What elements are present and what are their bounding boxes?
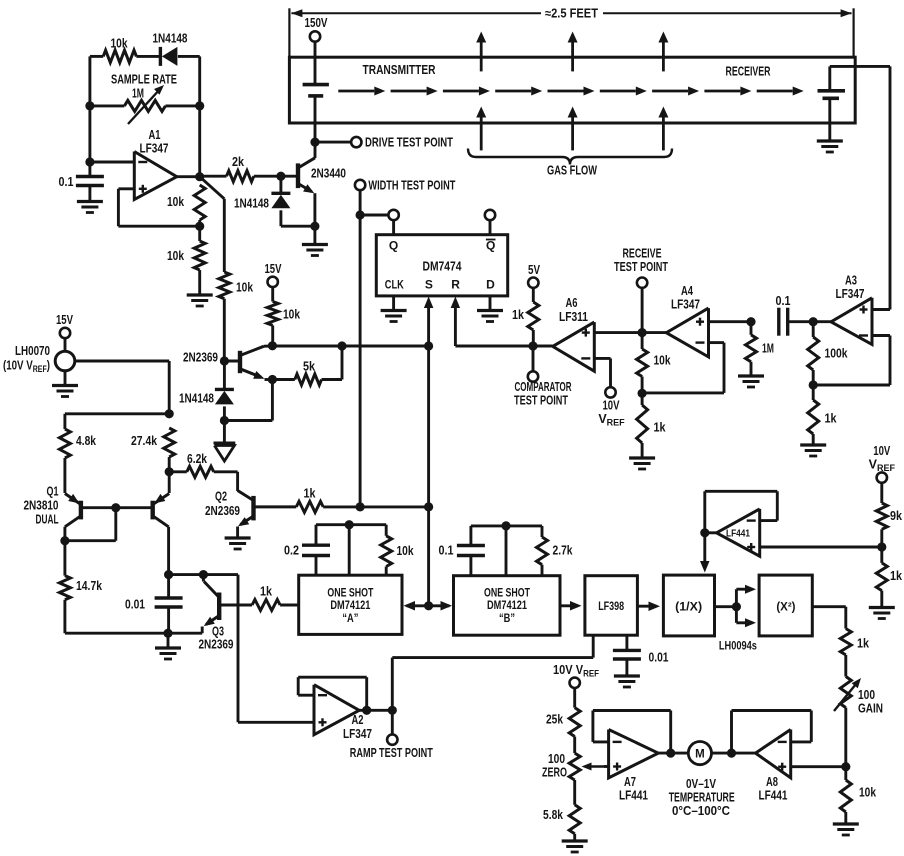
wire: receiver transducer bottom lead [828, 98, 831, 139]
node: 2N2369 emitter node [268, 375, 277, 384]
wire: width node to Q terminal [360, 214, 388, 217]
resistor 10k (A4 divider) [637, 349, 648, 377]
wire: A4 output to receive line [642, 331, 666, 334]
wire: cap to A3 node [788, 320, 814, 323]
op-amp U5 LF441 (reference buffer) [717, 509, 760, 556]
node: 5k tap junction [337, 341, 346, 350]
label: 5.8k [543, 808, 563, 822]
svg-text:Q3: Q3 [212, 625, 224, 639]
wire: A8 + input [791, 765, 846, 768]
sample-hold U4 LF398 [585, 576, 638, 636]
svg-text:1k: 1k [304, 487, 316, 501]
wire: west branch down [63, 414, 66, 429]
ground: ramp capacitor [155, 648, 181, 659]
label: 9k [890, 509, 902, 523]
capacitor 0.1 (coupling) [779, 308, 788, 336]
label: 10k (base feed) [236, 281, 253, 295]
wire: A2 output [359, 709, 392, 712]
node: bottom rail / 0.01 junction [163, 629, 172, 638]
wire: A4 - feedback [642, 343, 724, 393]
wire: S line vertical down [427, 346, 430, 606]
svg-text:2N2369: 2N2369 [205, 504, 240, 518]
diode 1N4148 (2N3440 base clamp) [271, 176, 290, 226]
svg-text:LH0094s: LH0094s [719, 639, 757, 653]
svg-text:M: M [695, 749, 705, 761]
wire: A1 output diagonal to 10k drop [200, 177, 225, 272]
node: S line mid junction [424, 502, 433, 511]
label: 1M [132, 87, 144, 101]
duct box (transmitter/receiver pipe) [289, 57, 855, 123]
svg-text:9k: 9k [890, 509, 902, 523]
node: A4 divider junction [638, 389, 647, 398]
svg-text:TEST POINT: TEST POINT [514, 394, 568, 408]
svg-text:“A”: “A” [342, 613, 358, 625]
ground: A8 10k [833, 824, 859, 835]
label: 2.7k [553, 544, 573, 558]
transducer: receiver element [818, 91, 846, 99]
wire: 1k to comparator node [532, 330, 535, 346]
ground: A3 gain [800, 445, 826, 456]
transistor Q3 2N2369 (ramp reset) [203, 575, 252, 627]
wire: emitter join [265, 378, 273, 381]
svg-text:A7: A7 [624, 775, 636, 789]
node: A1 divider midpoint [195, 222, 204, 231]
svg-text:A4: A4 [681, 284, 693, 298]
wire: 5V to 1k [532, 288, 535, 302]
svg-text:10k: 10k [236, 281, 253, 295]
terminal: RECEIVE TEST POINT [637, 278, 647, 288]
label: A7 [624, 775, 636, 789]
node: A2 output junction [388, 706, 397, 715]
wire: one-shot B timing top [471, 524, 542, 527]
wire: A3 node to A3 output [813, 320, 831, 323]
resistor 2k (A1 output to 2N3440 base) [200, 171, 281, 182]
label: 1M (load) [762, 342, 774, 356]
node: A6/A4 junction [638, 328, 647, 337]
svg-text:27.4k: 27.4k [131, 434, 157, 448]
node: ramp node (0.01 top) [164, 570, 173, 579]
wire: LF441 + input to divider [760, 546, 882, 549]
wire: receive line down [641, 288, 644, 349]
wire: 1k to ground [812, 434, 815, 444]
svg-text:“B”: “B” [499, 613, 515, 625]
node: 6.2k junction [165, 467, 174, 476]
wire: 10k to divider node [641, 377, 644, 406]
svg-text:1N4148: 1N4148 [234, 197, 269, 211]
wire: one-shot A timing top [316, 523, 386, 526]
wire: 5k tap drop [341, 346, 344, 380]
wire: hold cap to ground [625, 659, 628, 675]
wire: width line vertical [359, 190, 362, 507]
wire: LF441 feedback loop [705, 491, 778, 533]
svg-text:100k: 100k [825, 347, 848, 361]
label: SAMPLE RATE [111, 73, 177, 87]
node: A1 output [195, 172, 204, 181]
wire: 1M to ground [750, 362, 753, 375]
gas flow arrows (three columns through duct) [476, 32, 668, 151]
label: (1/X) [675, 602, 702, 614]
svg-text:Q1: Q1 [47, 485, 59, 499]
svg-text:≈2.5 FEET: ≈2.5 FEET [545, 7, 598, 21]
label: 10k (A8 input) [859, 786, 876, 800]
potentiometer 100 GAIN [834, 677, 861, 712]
label: DUAL [36, 513, 59, 527]
node: 2N3440 emitter node [310, 222, 319, 231]
label: LF347 (A1) [140, 142, 169, 156]
svg-text:10V: 10V [873, 444, 890, 458]
resistor 2.7k (one-shot B timing) [537, 526, 548, 576]
wire: A2 output up to sample line [392, 658, 593, 711]
label: LF441 (A8) [759, 789, 788, 803]
label: 1k (pullup) [512, 308, 524, 322]
wire: zero pot to 5.8k [573, 780, 576, 805]
svg-text:A3: A3 [845, 274, 857, 288]
svg-text:R: R [451, 278, 460, 292]
ground: A1 divider [187, 295, 213, 306]
svg-text:LF347: LF347 [343, 727, 372, 741]
svg-text:1M: 1M [132, 87, 144, 101]
svg-text:5k: 5k [303, 360, 315, 374]
wire: A6 - input to 10V VREF [594, 358, 610, 387]
svg-text:1k: 1k [654, 421, 666, 435]
label: GAIN [858, 702, 883, 716]
op-amp A1 LF347 [134, 152, 177, 200]
label: VREF (divider) [869, 458, 896, 474]
svg-text:ZERO: ZERO [542, 766, 567, 780]
terminal: DM7474 Q output [388, 210, 398, 220]
svg-text:LF441: LF441 [759, 789, 788, 803]
wire: 27.4k to 6.2k node [168, 457, 171, 472]
flip-flop U1 DM7474 [376, 235, 507, 296]
label: 10V (divider) [873, 444, 890, 458]
svg-text:GAIN: GAIN [858, 702, 883, 716]
svg-text:LF441: LF441 [619, 789, 648, 803]
svg-text:2N3810: 2N3810 [24, 499, 59, 513]
label: 0C-100C [672, 804, 730, 818]
terminal: 150V supply [305, 16, 329, 42]
resistor 10k (2N2369 collector) [267, 302, 278, 326]
label: 2N2369 (Q3) [199, 638, 234, 652]
svg-text:RECEIVER: RECEIVER [726, 65, 771, 79]
svg-text:Q: Q [486, 239, 495, 253]
node: A2 output feedback tap [362, 706, 371, 715]
svg-text:100: 100 [548, 752, 565, 766]
terminal: 10V VREF (A6) [605, 387, 615, 397]
svg-text:0V–1V: 0V–1V [686, 777, 717, 791]
ground: A4 divider [629, 458, 655, 469]
wire: 6.2k node to Q1 right emitter [168, 472, 171, 493]
wire: A7 feedback loop [593, 711, 671, 754]
svg-text:DRIVE TEST POINT: DRIVE TEST POINT [365, 136, 453, 150]
node: one-shot A timing junction [345, 520, 354, 529]
svg-text:0.1: 0.1 [439, 544, 454, 558]
potentiometer 1M (sample rate) [90, 85, 200, 124]
node: drive node [310, 138, 319, 147]
terminal: DM7474 Qbar output [485, 210, 495, 220]
wire: 10k down to 2N2369 base node [223, 299, 226, 361]
svg-text:LF347: LF347 [836, 287, 865, 301]
svg-text:GAS FLOW: GAS FLOW [547, 164, 597, 178]
wire: one-shot B to LF398 arrow [560, 601, 582, 611]
node: trigger junction [424, 601, 433, 610]
wire: VREF to 25k [573, 688, 576, 708]
node: 1M junction [746, 317, 755, 326]
wire: comparator node to A6 output [533, 345, 553, 348]
one-shot U2 DM74121 A [299, 575, 402, 634]
node: width/Q junction [356, 210, 365, 219]
label: 2N3440 [311, 167, 346, 181]
svg-text:25k: 25k [546, 713, 563, 727]
label: 6.2k [187, 452, 207, 466]
label: 1N4148 (discharge) [179, 392, 214, 406]
capacitor 0.1 (A1 timing) [76, 177, 104, 186]
resistor 10k (A1 top feedback) [103, 50, 136, 62]
label: 2N2369 (Q2) [205, 504, 240, 518]
label: Q1 [47, 485, 59, 499]
potentiometer 100 ZERO [569, 753, 604, 780]
svg-text:A8: A8 [766, 775, 778, 789]
label: DRIVE TEST POINT [365, 136, 453, 150]
ground: zero chain [562, 841, 588, 852]
label: (X2) [776, 602, 795, 614]
svg-text:2.7k: 2.7k [553, 544, 573, 558]
wire: Q1 base tie [81, 506, 153, 509]
wire: LF398 to 1/X arrow [637, 602, 660, 612]
svg-text:14.7k: 14.7k [76, 579, 102, 593]
transistor 2N2369 (width trigger) [224, 346, 264, 379]
label: (10V VREF) [3, 359, 50, 375]
wire: A1 + input loop [118, 189, 199, 226]
wire: A3 - feedback [813, 336, 890, 386]
wire: R to comparator output [455, 345, 533, 348]
label: 1k (gain chain) [857, 637, 869, 651]
svg-text:0.2: 0.2 [284, 544, 299, 558]
label: 0.1 (coupling) [776, 294, 791, 308]
wire: 1k to ground [880, 591, 883, 607]
wire: A3 + input from receiver [872, 308, 890, 311]
label: 0.1 [59, 175, 74, 189]
label: 1N4148 (clamp) [234, 197, 269, 211]
resistor 5k (emitter to S tap) [272, 374, 342, 385]
svg-text:LF311: LF311 [559, 310, 588, 324]
function block (1/X) LH0094 [663, 575, 714, 636]
label: 14.7k [76, 579, 102, 593]
label: 10k (collector) [283, 308, 300, 322]
wire: 15V to 10k [271, 287, 274, 301]
label: DM7474 [423, 259, 463, 274]
label: A1 [149, 128, 161, 142]
wire: 150V to transmitter transducer [314, 42, 317, 85]
label: Q3 [212, 625, 224, 639]
pin label: Qbar [486, 239, 496, 253]
wire: B timing junction into box [505, 526, 508, 576]
label: LH0070 [15, 344, 50, 358]
transistor Q1 2N3810 dual PNP - right half [153, 494, 170, 527]
ground: LH0070 [52, 386, 78, 397]
node: 1/X output junction [732, 602, 741, 611]
wire: LF398 hold cap pin [625, 635, 628, 650]
wire: Q1 left collector down [63, 527, 66, 576]
wire: rail junction to ground [167, 633, 170, 647]
capacitor 0.1 (one-shot B timing) [457, 526, 485, 576]
svg-text:DM74121: DM74121 [330, 600, 370, 612]
node: 1M right junction [195, 101, 204, 110]
meter M (0V-1V temperature) [688, 742, 711, 765]
wire: emitter drop to diode junction [224, 419, 272, 422]
svg-text:RECEIVE: RECEIVE [623, 247, 662, 261]
label: WIDTH TEST POINT [368, 179, 455, 193]
svg-text:15V: 15V [56, 313, 73, 327]
terminal: 15V (LH0070) [56, 313, 73, 338]
node: Q1 base junction [111, 503, 120, 512]
node: divider top junction [165, 409, 174, 418]
label: TEMPERATURE [669, 791, 735, 805]
resistor 1k (gain chain) [840, 629, 851, 655]
wire: meter to A8 output [712, 752, 756, 755]
wire: 15V to LH0070 [64, 338, 67, 351]
svg-text:5V: 5V [528, 263, 541, 277]
svg-text:2N3440: 2N3440 [311, 167, 346, 181]
label: 25k [546, 713, 563, 727]
label: 4.8k [76, 434, 96, 448]
wire: 1k to ground [641, 443, 644, 457]
label: 0.2 [284, 544, 299, 558]
svg-text:1k: 1k [857, 637, 869, 651]
wire: ramp to A2 + [238, 575, 314, 723]
resistor 1k (Q3 base) [252, 600, 280, 611]
label: LF347 (A4) [671, 298, 700, 312]
svg-text:6.2k: 6.2k [187, 452, 207, 466]
svg-text:A6: A6 [566, 296, 578, 310]
wire: X^2 input lower arrow [736, 607, 756, 628]
function block (X squared) LH0094 [759, 575, 812, 636]
wire: collector node to S line [272, 345, 428, 348]
label: DM74121 (A) [330, 600, 370, 612]
wire: VREF to 9k [880, 483, 883, 503]
wire: 2N3440 emitter down [313, 193, 316, 226]
wire: emitter node to ground [313, 226, 316, 243]
label: 10k (A4 divider) [654, 354, 671, 368]
svg-text:4.8k: 4.8k [76, 434, 96, 448]
node: 1M left junction [85, 101, 94, 110]
wire: LF398 sample control pin [592, 635, 595, 657]
wire: 100k to gain node [812, 370, 815, 400]
svg-text:S: S [425, 278, 433, 292]
wire: left junction down to A1 - input [88, 106, 91, 176]
node: A8 output junction [727, 749, 736, 758]
label: 1k (A4 divider) [654, 421, 666, 435]
transistor Q2 2N2369 (reset clamp) [238, 491, 297, 527]
wire: S input arrow [424, 297, 434, 347]
wire: receiver transducer to A3 + input (right side run) [830, 66, 890, 309]
wire: X^2 input upper arrow [736, 585, 756, 607]
voltage reference LH0070 [55, 351, 75, 371]
svg-text:2N2369: 2N2369 [199, 638, 234, 652]
transistor Q1 2N3810 dual PNP - left half [65, 494, 81, 527]
node: 2N2369 collector node [268, 341, 277, 350]
svg-text:10k: 10k [167, 195, 184, 209]
svg-text:TRANSMITTER: TRANSMITTER [363, 63, 436, 77]
wire: ramp test point stub [391, 710, 394, 734]
wire: emitter node down [271, 380, 274, 421]
wire: A8 feedback loop [732, 711, 812, 754]
svg-text:TEMPERATURE: TEMPERATURE [669, 791, 735, 805]
label: 2N3810 [24, 499, 59, 513]
label: 10k (one-shot A) [397, 544, 414, 558]
wire: timing junction into box [348, 525, 351, 576]
svg-text:10k: 10k [111, 37, 128, 51]
label: 1k (Q3 base) [260, 585, 272, 599]
wave propagation arrows (transmitter to receiver) [338, 87, 803, 96]
op-amp A4 LF347 [666, 308, 708, 357]
resistor 4.8k [59, 429, 70, 458]
terminal: 10V VREF (zero chain) [570, 678, 580, 688]
label: ZERO [542, 766, 567, 780]
resistor 14.7k [59, 576, 70, 600]
ground: DM7474 D [477, 311, 503, 322]
wire: Q2 collector up to 6.2k [236, 472, 239, 491]
wire: zero pot wiper to A7 + [604, 765, 609, 768]
label: 0V-1V [686, 777, 717, 791]
node: one-shot B timing junction [501, 521, 510, 530]
svg-text:2k: 2k [232, 155, 244, 169]
node: A3 input junction [809, 317, 818, 326]
wire: comparator test stub [532, 346, 535, 371]
svg-text:0.01: 0.01 [125, 598, 145, 612]
label: 10k (divider upper) [167, 195, 184, 209]
svg-text:WIDTH TEST POINT: WIDTH TEST POINT [368, 179, 455, 193]
label: ONE SHOT (A) [327, 588, 373, 600]
wire: 1N4148 to right corner of feedback loop [178, 56, 200, 106]
label: 1k (divider) [890, 569, 902, 583]
svg-text:0.01: 0.01 [649, 651, 669, 665]
wire: 1k to width/S junction [323, 505, 428, 508]
label: LF347 (A2) [343, 727, 372, 741]
resistor 1M (A3 load) [746, 322, 757, 362]
svg-text:RAMP TEST POINT: RAMP TEST POINT [350, 746, 433, 760]
label: LF398 [598, 601, 624, 613]
wire: drive node to DRIVE TEST POINT [315, 141, 351, 144]
wire: Q2 emitter to ground [236, 527, 239, 538]
diode 1N4148 (A1 feedback) [160, 47, 177, 66]
capacitor 0.01 (hold) [613, 650, 641, 659]
wire: base junction to left collector [65, 508, 116, 541]
resistor 1k (divider) [876, 563, 887, 591]
svg-text:DM7474: DM7474 [423, 259, 463, 274]
svg-text:15V: 15V [265, 262, 282, 276]
svg-text:1k: 1k [825, 412, 837, 426]
label: 0.1 (one-shot B) [439, 544, 454, 558]
terminal: 5V [528, 263, 541, 288]
node: diode bottom junction [220, 416, 229, 425]
wire: 1k to one-shot A [280, 604, 299, 607]
label: ''A'' [342, 613, 358, 625]
label: GAS FLOW [547, 164, 597, 178]
svg-text:A1: A1 [149, 128, 161, 142]
ground: 2N3440 emitter [302, 245, 328, 256]
svg-text:1N4148: 1N4148 [179, 392, 214, 406]
label: A4 [681, 284, 693, 298]
terminal: RAMP TEST POINT [387, 734, 397, 744]
op-amp A2 LF347 [314, 685, 359, 735]
op-amp A3 LF347 [831, 298, 872, 345]
transducer: transmitter element [303, 85, 329, 96]
capacitor 0.01 (ramp) [155, 575, 183, 634]
wire: R input arrow [451, 297, 461, 347]
label: DM74121 (B) [487, 600, 527, 612]
label: ''B'' [499, 613, 515, 625]
svg-text:(10V VREF): (10V VREF) [3, 359, 50, 375]
